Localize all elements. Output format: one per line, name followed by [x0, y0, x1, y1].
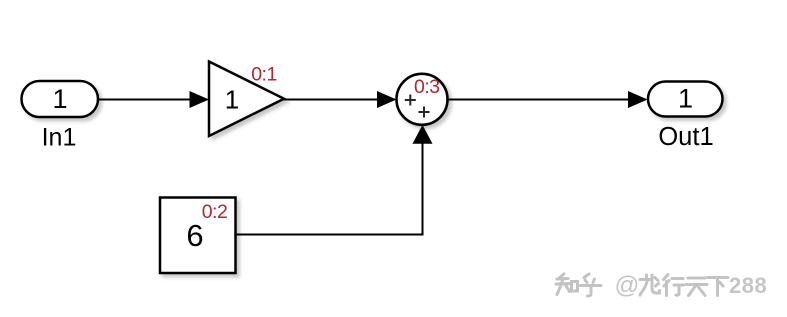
watermark 知乎 @龙行天下288 (drawn strokes, light gray) — [556, 274, 728, 296]
arrowhead into Out1 — [628, 91, 648, 108]
watermark char 龙 — [640, 275, 660, 295]
wire corner to Sum (vertical segment) — [422, 142, 424, 236]
sum sign + (bottom input) — [419, 107, 430, 118]
svg-text:In1: In1 — [42, 124, 77, 152]
label In1 — [42, 124, 77, 152]
svg-text:Out1: Out1 — [658, 123, 713, 151]
svg-text:@: @ — [615, 272, 640, 299]
svg-text:1: 1 — [52, 84, 67, 114]
svg-text:0:1: 0:1 — [251, 63, 277, 85]
wire Constant to corner (horizontal segment) — [235, 234, 424, 236]
arrowhead into Sum bottom input — [413, 125, 433, 144]
svg-text:1: 1 — [225, 85, 239, 115]
watermark text @ — [615, 272, 640, 299]
gain block (triangle) — [209, 62, 284, 137]
sample time label 0:2 — [202, 201, 228, 223]
arrowhead into Sum left input — [377, 91, 397, 108]
arrowhead into Gain input — [190, 91, 210, 108]
sum block (circle) — [397, 74, 448, 125]
sample time label 0:3 — [414, 76, 440, 98]
watermark text 288 — [729, 273, 767, 298]
svg-text:288: 288 — [729, 273, 767, 298]
wire Gain to Sum — [283, 99, 395, 101]
svg-text:0:2: 0:2 — [202, 201, 228, 223]
svg-text:1: 1 — [678, 84, 693, 114]
label Out1 — [658, 123, 713, 151]
watermark char 知 — [556, 274, 578, 295]
sum sign + (left input) — [405, 95, 416, 106]
watermark char 行 — [664, 275, 684, 296]
constant block — [160, 198, 236, 274]
svg-text:6: 6 — [186, 218, 203, 253]
sample time label 0:1 — [251, 63, 277, 85]
svg-text:0:3: 0:3 — [414, 76, 440, 98]
wire Sum to Out1 — [447, 99, 646, 101]
watermark char 乎 — [581, 274, 602, 296]
watermark char 下 — [708, 278, 729, 296]
watermark char 天 — [686, 278, 707, 296]
inport block In1 — [22, 81, 99, 117]
wire In1 to Gain — [98, 99, 207, 101]
outport block Out1 — [648, 82, 723, 117]
